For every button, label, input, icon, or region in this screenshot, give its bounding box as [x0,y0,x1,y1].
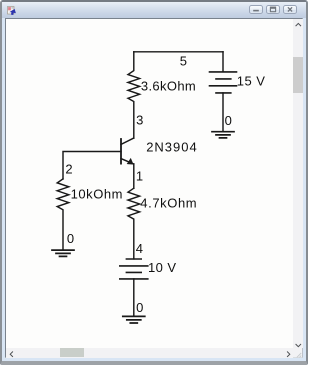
minimize button [249,5,263,14]
vertical scrollbar thumb [293,57,303,93]
svg-text:10 V: 10 V [148,260,177,275]
svg-text:0: 0 [67,231,74,246]
wire emitter node 1 [133,164,135,188]
svg-text:1: 1 [136,168,143,183]
resistor R2 10kOhm [57,179,69,249]
battery V1 15 V plates [210,71,237,73]
resistor R3 4.7kOhm [128,188,140,259]
transistor Q1 emitter diagonal [121,159,134,164]
ground (left) [52,250,74,256]
svg-text:3.6kOhm: 3.6kOhm [141,78,196,93]
svg-text:15 V: 15 V [237,73,266,88]
svg-text:4.7kOhm: 4.7kOhm [140,196,197,211]
svg-text:5: 5 [180,54,187,69]
horizontal scrollbar track [6,348,293,359]
transistor Q1 2N3904: base bar [120,139,122,164]
transistor Q1 emitter arrow [127,159,132,164]
close button [283,5,297,14]
battery V2 10 V plates [126,258,141,260]
ground (bottom) [123,316,145,323]
wire node 5 (top horizontal) [134,51,223,53]
svg-text:2N3904: 2N3904 [146,140,198,155]
wire to battery V1 [222,52,224,72]
vertical scrollbar track [293,19,303,348]
resistor R1 3.6kOhm [128,52,140,138]
restore button [266,5,280,14]
wire node 0 (bottom) [133,279,135,316]
svg-text:0: 0 [136,300,143,315]
svg-text:3: 3 [136,112,143,127]
svg-text:10kOhm: 10kOhm [71,187,123,202]
ground (right) [212,132,234,138]
window icon [7,6,16,15]
svg-text:4: 4 [136,241,143,256]
svg-text:2: 2 [65,162,72,177]
wire node 0 (right) [222,93,224,132]
wire base node 2 [63,152,121,179]
title bar [2,2,306,18]
svg-text:0: 0 [225,113,232,128]
transistor Q1 collector diagonal [121,138,134,144]
horizontal scrollbar thumb [60,348,85,357]
